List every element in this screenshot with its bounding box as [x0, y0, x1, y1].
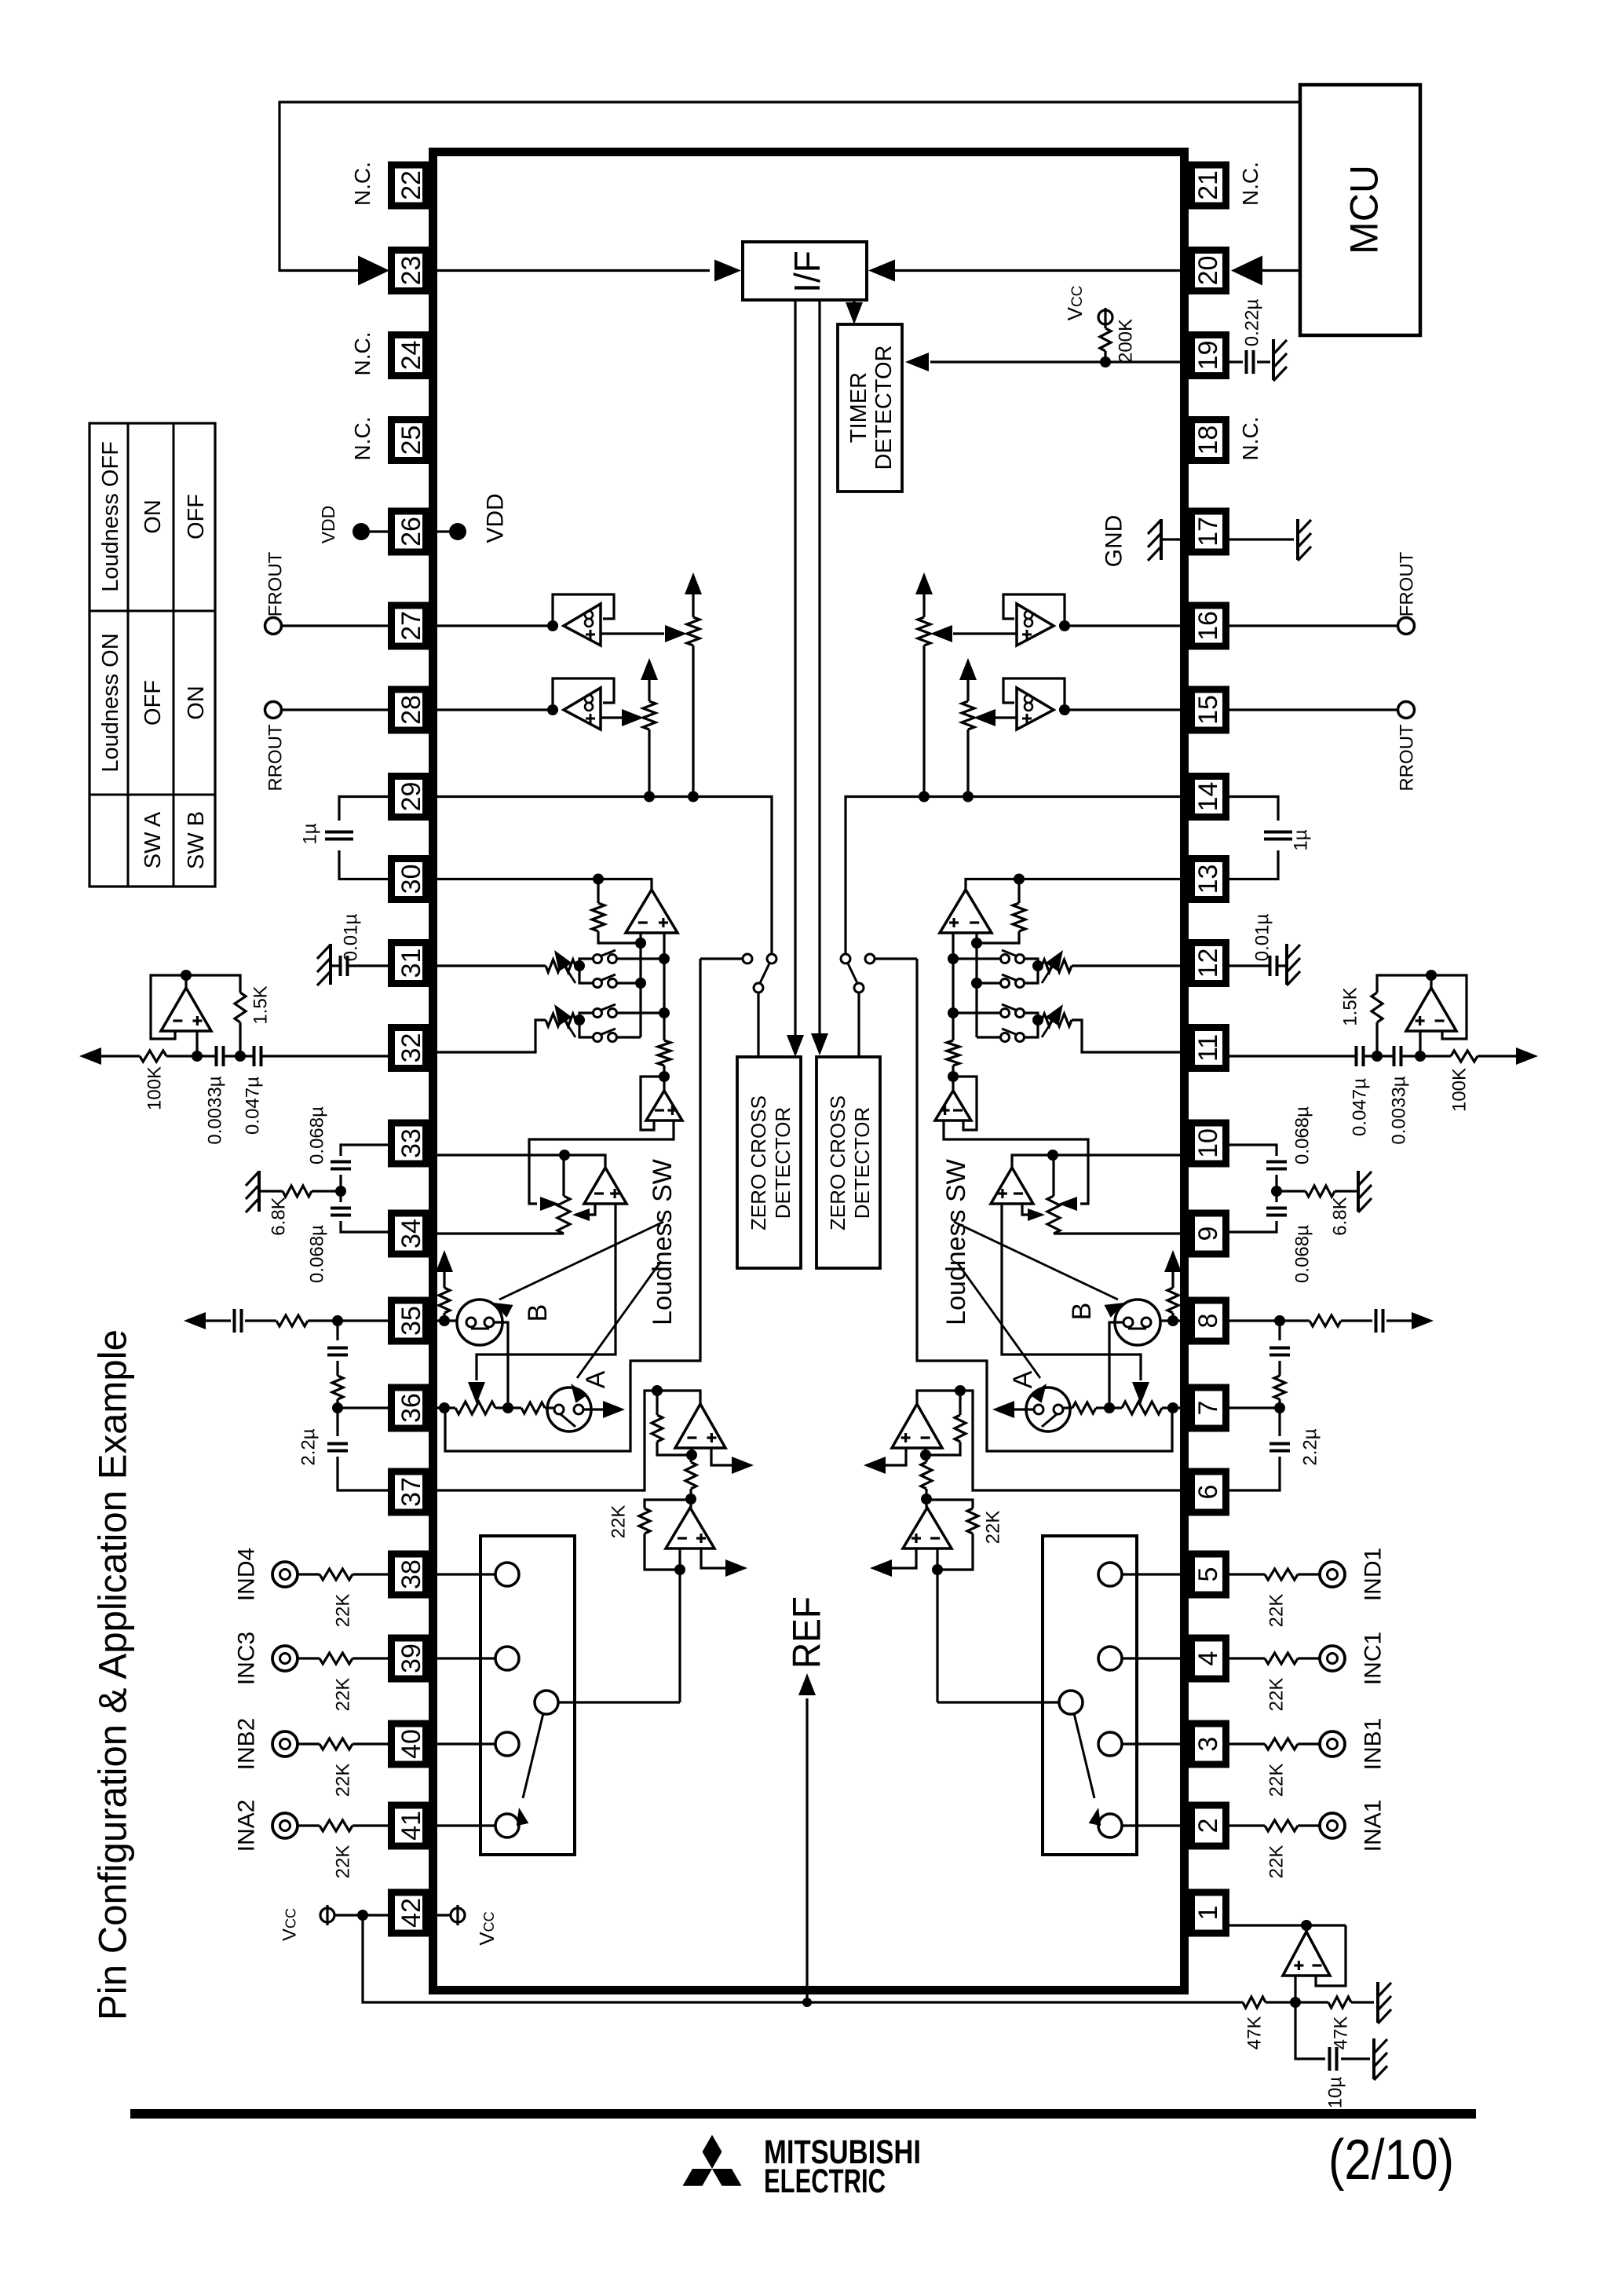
- variable resistor VR2: [1042, 1014, 1072, 1026]
- capacitor 2.2u: [336, 1408, 338, 1436]
- wire U5 plus leg: [1294, 1976, 1296, 2002]
- svg-text:28: 28: [396, 695, 426, 725]
- wire U4 apex: [689, 1499, 692, 1508]
- ZC contact right: [841, 954, 850, 963]
- wire pin17 ext: [1229, 538, 1294, 540]
- capacitor pin35 out: [1382, 1309, 1385, 1333]
- wire to ground 6.8K: [1335, 1190, 1353, 1192]
- selector arm: [1074, 1713, 1094, 1798]
- svg-text:1.5K: 1.5K: [250, 985, 271, 1024]
- wire U2 apex: [1430, 975, 1432, 988]
- wire row4 right: [977, 1036, 1000, 1038]
- svg-text:0.0033µ: 0.0033µ: [1388, 1076, 1409, 1144]
- ground 10u: [1372, 2038, 1375, 2079]
- svg-text:8: 8: [1193, 1314, 1223, 1329]
- wire pin33 ext bracket: [341, 1145, 388, 1156]
- wire pin32 out a: [1478, 1055, 1517, 1057]
- wire pin27 buffer output: [953, 632, 1017, 634]
- pin 25 box: [392, 420, 426, 461]
- wire caps mid: [225, 1055, 253, 1057]
- wire pot2 up: [966, 680, 969, 701]
- junction A1 out: [948, 1071, 959, 1082]
- svg-text:OFF: OFF: [184, 494, 209, 539]
- wire ZC to detector: [757, 993, 759, 1057]
- wire selector pin40: [437, 1742, 495, 1745]
- wire pin33: [437, 1155, 605, 1168]
- svg-text:23: 23: [396, 256, 426, 286]
- svg-text:A: A: [1008, 1370, 1038, 1388]
- junction U2 out: [1426, 970, 1437, 981]
- wire 22K pin41: [353, 1824, 388, 1826]
- selector contact pin38: [495, 1563, 519, 1586]
- junction pin42: [357, 1910, 368, 1921]
- wire U4 minus stub: [936, 1548, 938, 1570]
- pin 41 box: [392, 1805, 426, 1846]
- svg-text:15: 15: [1193, 695, 1223, 725]
- svg-text:INA1: INA1: [1361, 1800, 1386, 1852]
- wire pin32 out b: [166, 1055, 215, 1057]
- wire rows34 bracket: [1024, 1013, 1038, 1037]
- svg-text:17: 17: [1193, 517, 1223, 547]
- op-amp U4: [666, 1508, 714, 1548]
- pin 16 box: [1192, 605, 1226, 646]
- wire to ground 6.8K: [264, 1190, 283, 1192]
- wire ext chain a: [1278, 1321, 1280, 1340]
- wire ZC contact: [875, 957, 917, 960]
- wire B right: [494, 1322, 508, 1402]
- pin 39 box: [392, 1638, 426, 1679]
- svg-text:7: 7: [1193, 1401, 1223, 1416]
- selector contact pin40: [1098, 1732, 1122, 1756]
- svg-text:DETECTOR: DETECTOR: [850, 1107, 874, 1219]
- wire fb res top: [1017, 879, 1020, 904]
- resistor 100K: [140, 1051, 166, 1062]
- pin 40 box: [392, 1724, 426, 1764]
- svg-text:0.01µ: 0.01µ: [340, 914, 361, 962]
- pin 2 box: [1192, 1805, 1226, 1846]
- I/F box: [743, 242, 867, 300]
- op-amp U3: [892, 1404, 942, 1448]
- junction pin36 chain: [1167, 1402, 1178, 1413]
- wire pot1 down to bus: [692, 645, 694, 797]
- svg-text:VCC: VCC: [279, 1908, 300, 1941]
- wire 1.5K down: [1375, 1022, 1378, 1056]
- pot resistor R-out1: [687, 617, 700, 645]
- wire pin36 chain a: [437, 1406, 455, 1409]
- svg-text:INC1: INC1: [1361, 1632, 1386, 1685]
- svg-text:MCU: MCU: [1343, 165, 1386, 254]
- svg-text:22K: 22K: [1266, 1678, 1287, 1712]
- ZC moving contact: [854, 983, 864, 993]
- analog switch row1: [594, 955, 602, 963]
- svg-text:22K: 22K: [332, 1845, 353, 1879]
- junction U2 out: [181, 970, 192, 981]
- arrowhead pin32 out: [1516, 1047, 1538, 1065]
- resistor fb U3U4: [689, 1455, 692, 1462]
- svg-text:27: 27: [396, 611, 426, 641]
- svg-text:OFF: OFF: [141, 680, 166, 726]
- resistor fb U3U4: [925, 1455, 927, 1462]
- loudness pot: [1047, 1196, 1060, 1234]
- arrowhead IF-timer: [846, 302, 863, 324]
- wire selector pin38: [437, 1573, 495, 1575]
- wire rows34 bracket: [579, 1013, 594, 1037]
- svg-text:ON: ON: [184, 686, 209, 720]
- arrowhead pot1 up: [685, 572, 702, 594]
- wire pin29 bus: [846, 797, 1181, 955]
- resistor ext chain: [332, 1376, 343, 1399]
- wire U3 apex: [657, 1391, 700, 1404]
- wire U5 apex: [1305, 1925, 1307, 1932]
- pin 6 box: [1192, 1472, 1226, 1512]
- pin 22 box: [392, 165, 426, 206]
- junction pin35 int: [439, 1315, 450, 1326]
- resistor 6.8K: [1277, 1190, 1306, 1192]
- svg-text:0.01µ: 0.01µ: [1251, 914, 1273, 962]
- wire pin1: [1229, 1924, 1346, 1926]
- wire pin33 ext bracket: [1229, 1145, 1277, 1156]
- svg-text:FROUT: FROUT: [1396, 551, 1417, 616]
- svg-text:21: 21: [1193, 170, 1223, 200]
- input terminal pin39: [1320, 1646, 1345, 1671]
- wire pin36 stub: [1229, 1406, 1280, 1409]
- arrowhead A out: [992, 1401, 1014, 1418]
- wire A1 apex: [663, 1077, 665, 1091]
- capacitor 0.0033u: [1400, 1046, 1403, 1066]
- selector arm wire: [937, 1701, 1059, 1703]
- analog switch row4: [1016, 1033, 1025, 1042]
- callout line B: [499, 1222, 663, 1300]
- wire pin32 out b: [1402, 1055, 1451, 1057]
- op-amp U2: [161, 988, 211, 1031]
- junction pin36 chain: [439, 1402, 450, 1413]
- junction VR2: [1032, 1015, 1043, 1026]
- wire A out: [583, 1408, 605, 1410]
- selector contact pin39: [495, 1647, 519, 1670]
- pin 11 box: [1192, 1028, 1226, 1069]
- wire pin36 chain b: [495, 1406, 521, 1409]
- wire pin34 ext bracket: [1229, 1221, 1277, 1232]
- svg-text:22K: 22K: [332, 1678, 353, 1712]
- arrowhead into pin20: [1231, 256, 1262, 286]
- wire 2.2u to pin37: [338, 1457, 388, 1490]
- junction pin35 ext: [1274, 1315, 1285, 1326]
- pin 20 box: [1192, 250, 1226, 291]
- op-amp volume: [626, 890, 678, 933]
- pin 5 box: [1192, 1554, 1226, 1595]
- wire into switch A: [545, 1406, 553, 1409]
- pin 17 box: [1192, 511, 1226, 552]
- capacitor 0.01u: [1276, 956, 1279, 976]
- arrowhead pot2 up: [641, 658, 658, 680]
- resistor 22K pin40: [1265, 1738, 1298, 1749]
- arrowhead A1 to pot: [1058, 1197, 1077, 1211]
- wire pin37: [966, 1391, 1181, 1490]
- svg-text:1µ: 1µ: [1290, 829, 1311, 850]
- TIMER DETECTOR box: [838, 324, 902, 492]
- pin 37 box: [392, 1472, 426, 1512]
- arrowhead B up: [1164, 1250, 1182, 1272]
- wire REF riser: [806, 1698, 808, 2002]
- ground 0.22u: [1272, 339, 1275, 380]
- wire U2 feedback: [151, 975, 186, 1039]
- wire minus rail: [639, 933, 641, 1037]
- ZC switch arm: [848, 963, 857, 983]
- resistor B up: [1167, 1288, 1178, 1313]
- left channel circuitry: [79, 572, 776, 1855]
- pin 36 box: [392, 1387, 426, 1428]
- svg-text:INB2: INB2: [234, 1718, 260, 1771]
- svg-text:22K: 22K: [332, 1764, 353, 1797]
- selector arm: [523, 1713, 543, 1798]
- wire pin32 ext c: [1229, 1055, 1355, 1057]
- svg-text:18: 18: [1193, 426, 1223, 455]
- ground 0.01u left: [329, 944, 332, 985]
- wire pin36 stub: [338, 1406, 388, 1409]
- resistor 22K pin38: [320, 1569, 353, 1580]
- wire terminal pin41: [298, 1824, 320, 1826]
- wire 22K pin38: [1229, 1573, 1265, 1575]
- arrowhead A out: [603, 1401, 625, 1418]
- wire selector pin41: [1122, 1824, 1181, 1826]
- junction U4 minus: [674, 1564, 685, 1575]
- wire pin35 out b: [1341, 1319, 1372, 1322]
- junction pin1 fb: [1301, 1920, 1312, 1931]
- arrowhead down to chain: [468, 1382, 485, 1404]
- junction plus-row1: [948, 953, 959, 964]
- arrowhead A2 to pot: [572, 1208, 590, 1221]
- VR2 wiper arrow: [1042, 1009, 1060, 1037]
- wire A2 minus leg: [1022, 1204, 1028, 1215]
- ZERO CROSS DETECTOR box 1: [737, 1057, 801, 1268]
- junction pin33: [1047, 1150, 1058, 1161]
- wire A1 feedback: [641, 1077, 664, 1130]
- pin 29 box: [392, 777, 426, 817]
- pin 23 box: [392, 250, 426, 291]
- svg-text:Loudness SW: Loudness SW: [648, 1159, 678, 1325]
- resistor 22K pin39: [1265, 1653, 1298, 1664]
- wire pin19 to timer: [930, 360, 1185, 363]
- junction minus-fb: [635, 938, 646, 949]
- arrowhead into pot2: [622, 709, 644, 726]
- svg-text:10µ: 10µ: [1324, 2077, 1346, 2109]
- arrowhead into pin23: [358, 256, 389, 286]
- resistor pin36 a: [1122, 1402, 1162, 1414]
- svg-text:GND: GND: [1101, 515, 1127, 568]
- junction A1 out: [659, 1071, 670, 1082]
- wire pin35 out a: [1386, 1319, 1412, 1322]
- wire pin30: [966, 879, 1181, 890]
- resistor 1.5K: [235, 993, 246, 1022]
- pin 14 box: [1192, 777, 1226, 817]
- pin 32 box: [392, 1028, 426, 1069]
- pin 34 box: [392, 1213, 426, 1254]
- wire pin28 buffer output: [995, 716, 1017, 718]
- resistor 100K: [1451, 1051, 1478, 1062]
- svg-text:47K: 47K: [1244, 2016, 1265, 2050]
- op-amp U4: [903, 1508, 952, 1548]
- ZC contact left: [865, 954, 875, 963]
- analog switch row2: [1016, 979, 1025, 988]
- resistor ext chain: [1274, 1376, 1285, 1399]
- pin 21 box: [1192, 165, 1226, 206]
- svg-text:33: 33: [396, 1128, 426, 1158]
- wire pot2 down to bus: [966, 729, 969, 797]
- junction 200K: [1100, 356, 1111, 367]
- svg-text:26: 26: [396, 517, 426, 547]
- resistor 22K U4: [967, 1508, 978, 1534]
- pin 38 box: [392, 1554, 426, 1595]
- wire U3 output: [886, 1448, 906, 1465]
- wire pin31: [437, 964, 546, 967]
- capacitor pin35 out: [233, 1309, 236, 1333]
- pin 3 box: [1192, 1724, 1226, 1764]
- arrowhead pin35 out: [1412, 1312, 1434, 1329]
- svg-text:41: 41: [396, 1811, 426, 1841]
- svg-text:N.C.: N.C.: [350, 162, 374, 206]
- wire ext chain b: [1278, 1361, 1280, 1376]
- pin 26 box: [392, 511, 426, 552]
- svg-text:SW B: SW B: [184, 811, 209, 869]
- wire pin33: [1012, 1155, 1181, 1168]
- wire ext chain c: [336, 1399, 338, 1408]
- svg-text:A: A: [581, 1370, 611, 1388]
- wire 1.5K down: [239, 1022, 241, 1056]
- junction U3 minus: [686, 1450, 697, 1461]
- junction U3 minus: [920, 1450, 931, 1461]
- arrowhead U3 out: [732, 1457, 754, 1474]
- wire 0.01u gnd stub: [1284, 964, 1287, 967]
- wire terminal pin40: [1298, 1742, 1320, 1745]
- wire ZC staircase: [445, 959, 700, 1451]
- svg-text:I/F: I/F: [787, 250, 827, 293]
- arrowhead REF: [798, 1673, 816, 1695]
- junction bus-pot1: [919, 792, 930, 803]
- svg-text:0.068µ: 0.068µ: [1291, 1106, 1313, 1164]
- selector arm contact: [535, 1691, 558, 1714]
- wire 1.5K leg: [186, 975, 240, 993]
- pin 12 box: [1192, 943, 1226, 984]
- wire 22K pin39: [353, 1657, 388, 1659]
- input terminal pin41: [272, 1813, 298, 1838]
- wire pin31 ext: [1229, 964, 1269, 967]
- selector contact pin41: [495, 1814, 519, 1837]
- wire 1u bracket: [339, 797, 388, 821]
- svg-text:0.22µ: 0.22µ: [1241, 299, 1262, 347]
- wire plus rail: [952, 933, 954, 1040]
- op-amp volume: [940, 890, 992, 933]
- wire IF to ZC2: [818, 300, 820, 1034]
- wire A2 minus leg: [589, 1204, 595, 1215]
- loudness switch B: [1115, 1300, 1160, 1345]
- wire pin31 ext: [348, 964, 388, 967]
- svg-text:5: 5: [1193, 1567, 1223, 1582]
- arrowhead down to chain: [1132, 1382, 1149, 1404]
- arrowhead U4 out: [870, 1559, 892, 1577]
- svg-text:13: 13: [1193, 865, 1223, 894]
- wire row1 right: [617, 957, 664, 960]
- wire pin35 out b: [245, 1319, 276, 1322]
- wire row1 right: [953, 957, 1000, 960]
- input selector box: [480, 1536, 575, 1855]
- wire ext chain b: [336, 1361, 338, 1376]
- wire U4 apex: [925, 1499, 927, 1508]
- wire pin32 out a: [100, 1055, 140, 1057]
- callout line A: [958, 1263, 1040, 1378]
- variable resistor VR2: [546, 1014, 575, 1026]
- wire rows12 bracket: [1024, 959, 1038, 983]
- svg-text:22K: 22K: [982, 1511, 1003, 1545]
- junction pin30: [593, 874, 604, 885]
- resistor 22K U4: [639, 1508, 650, 1534]
- resistor pin35 out: [1310, 1315, 1341, 1326]
- wire 10u leg: [1295, 2002, 1325, 2059]
- svg-text:0.047µ: 0.047µ: [242, 1077, 263, 1135]
- capacitor 1u: [325, 831, 353, 834]
- wire 10u to gnd: [1341, 2057, 1370, 2060]
- svg-text:ZERO CROSS: ZERO CROSS: [826, 1095, 849, 1230]
- VDD terminal inner: [437, 530, 449, 532]
- wire selector to U4: [678, 1570, 681, 1702]
- svg-text:N.C.: N.C.: [350, 417, 374, 461]
- resistor volume fb: [592, 903, 605, 931]
- svg-text:IND4: IND4: [234, 1548, 260, 1601]
- wire U4 output: [701, 1548, 727, 1568]
- svg-text:2.2µ: 2.2µ: [1299, 1428, 1321, 1465]
- wire A2 plus leg: [1002, 1204, 1141, 1380]
- svg-text:100K: 100K: [144, 1066, 165, 1110]
- pin 33 box: [392, 1123, 426, 1164]
- op-amp loudness A1: [935, 1091, 971, 1121]
- wire A2 plus leg: [477, 1204, 616, 1380]
- FROUT terminal right: [1398, 618, 1415, 634]
- selector arm contact: [1059, 1691, 1083, 1714]
- wire to junction: [1275, 1175, 1277, 1191]
- resistor 22K pin40: [320, 1738, 353, 1749]
- svg-text:VDD: VDD: [483, 493, 509, 543]
- wire U2 apex: [184, 975, 187, 988]
- wire minus rail: [975, 933, 977, 1037]
- callout line B: [954, 1222, 1118, 1300]
- svg-text:36: 36: [396, 1393, 426, 1423]
- op-amp U2: [1406, 988, 1456, 1031]
- junction pin36 ext: [332, 1402, 343, 1413]
- wire pin30: [437, 879, 652, 890]
- op-amp loudness A2: [991, 1168, 1033, 1204]
- junction pin36 ext: [1274, 1402, 1285, 1413]
- wire A1 plus leg: [529, 1121, 674, 1204]
- pin 9 box: [1192, 1213, 1226, 1254]
- svg-text:Loudness SW: Loudness SW: [941, 1159, 971, 1325]
- svg-text:4: 4: [1193, 1651, 1223, 1666]
- input terminal pin40: [1320, 1731, 1345, 1757]
- wire A1 feedback: [953, 1077, 977, 1130]
- wire MCU to pin20: [1259, 269, 1300, 272]
- ZERO CROSS DETECTOR box 2: [816, 1057, 880, 1268]
- resistor 47K a: [1243, 1997, 1266, 2008]
- junction pin33: [559, 1150, 570, 1161]
- wire selector pin39: [437, 1657, 495, 1659]
- IC body outline: [433, 152, 1185, 1991]
- ground internal GND: [1160, 519, 1163, 560]
- input terminal pin38: [272, 1562, 298, 1587]
- svg-text:Pin Configuration & Applicatio: Pin Configuration & Application Example: [91, 1329, 135, 2020]
- loudness switch B: [457, 1300, 502, 1345]
- resistor 22K U3: [959, 1391, 961, 1415]
- wire row3 right: [617, 1011, 664, 1014]
- wire 22K pin40: [1229, 1742, 1265, 1745]
- capacitor 0.047u: [253, 1046, 256, 1066]
